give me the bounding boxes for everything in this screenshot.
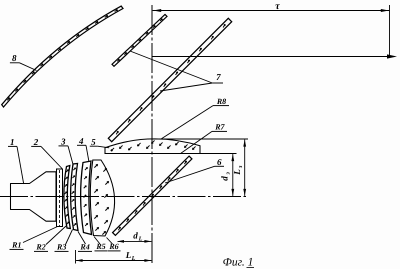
label R8 [213, 97, 229, 106]
svg-text:τ: τ [275, 1, 280, 12]
label L_z [232, 165, 244, 176]
extension line top of lens 5 [151, 138, 248, 140]
plate 7a (small upper mirror of pair 7) [112, 14, 167, 66]
meniscus lens 3b [71, 164, 78, 231]
mirror 6 [113, 156, 192, 235]
label R7 [212, 123, 227, 132]
svg-text:з: з [237, 165, 244, 169]
leader for R3 [66, 230, 73, 245]
housing 1 (objective tube) [11, 172, 57, 221]
label 7 [212, 72, 223, 83]
label R3 [55, 243, 69, 252]
svg-text:1: 1 [10, 137, 15, 147]
svg-text:5: 5 [91, 137, 96, 147]
leader for 8 [20, 63, 37, 71]
optical axis (horizontal, dash-dot) [0, 196, 248, 198]
dimension line L_L [76, 259, 152, 262]
leader for R2 [46, 226, 66, 245]
dimension line d_L [117, 240, 151, 243]
svg-text:R6: R6 [108, 242, 118, 251]
svg-text:4: 4 [78, 136, 84, 146]
extension line bottom of lens 5 [200, 153, 237, 155]
leader for R8 [161, 106, 213, 139]
leader for 2 [41, 146, 62, 168]
label 4 [77, 136, 86, 146]
label 5 [90, 137, 98, 147]
biconvex lens 4b (main lens) [90, 160, 114, 236]
exit ray with arrow [152, 54, 397, 58]
svg-text:R8: R8 [216, 97, 226, 106]
label d_z [220, 172, 232, 181]
label R4 [78, 243, 92, 252]
meniscus lens 4a [81, 161, 92, 235]
extension line left end of L_L [75, 250, 77, 264]
label R5 [95, 242, 108, 251]
label 2 [31, 137, 41, 147]
lens 5 (horizontal lens, surfaces R7/R8) [105, 139, 200, 154]
leader for R6 [107, 238, 113, 245]
dimension line tau [153, 9, 390, 12]
leader for R4 [78, 232, 86, 245]
leader for R7 [181, 131, 212, 153]
svg-text:d: d [133, 231, 138, 241]
svg-text:d: d [220, 176, 230, 181]
leader for R5 [94, 237, 100, 245]
reticle 2 (flat element with dashed line) [57, 169, 63, 227]
svg-text:6: 6 [217, 157, 222, 167]
leader for R1 [23, 227, 58, 243]
svg-text:L: L [232, 169, 242, 176]
label 1 [8, 137, 17, 147]
svg-text:8: 8 [12, 53, 17, 63]
label d_L [133, 231, 142, 243]
svg-text:R1: R1 [11, 241, 21, 250]
leader from 7 to plate 7a [130, 51, 212, 83]
mirror 8 [2, 6, 123, 107]
leader for 3 [68, 146, 73, 166]
leader for 4 [86, 145, 89, 162]
meniscus lens 3a [64, 166, 70, 229]
label R6 [108, 242, 121, 251]
svg-text:R4: R4 [79, 243, 89, 252]
dimension line L_z [243, 140, 246, 196]
leader from 7 to plate 7b [160, 83, 212, 91]
svg-text:R7: R7 [214, 123, 225, 132]
svg-text:з: з [224, 172, 231, 176]
svg-text:Фиг. 1: Фиг. 1 [223, 257, 254, 269]
leader for 1 [17, 146, 24, 184]
label tau [275, 1, 280, 12]
svg-text:R3: R3 [56, 243, 66, 252]
dimension line d_z [231, 154, 234, 196]
leader for 6 [165, 166, 215, 183]
label 8 [10, 53, 20, 63]
leader for 5 [98, 146, 110, 148]
caption Fig. 1 [223, 257, 254, 269]
svg-text:L: L [138, 235, 143, 242]
svg-text:R5: R5 [95, 242, 105, 251]
label L_L [125, 250, 136, 262]
svg-text:7: 7 [216, 72, 221, 82]
plate 7b (long mirror of pair 7) [108, 18, 231, 141]
label R1 [10, 241, 24, 250]
svg-text:3: 3 [60, 136, 66, 146]
label 6 [215, 157, 225, 167]
label 3 [59, 136, 69, 146]
svg-text:2: 2 [33, 137, 39, 147]
svg-text:L: L [131, 255, 136, 262]
label R2 [34, 243, 48, 252]
svg-text:R2: R2 [35, 243, 45, 252]
extension line right end of tau [389, 5, 391, 57]
optical axis (vertical branch, dash-dot) [151, 5, 153, 264]
